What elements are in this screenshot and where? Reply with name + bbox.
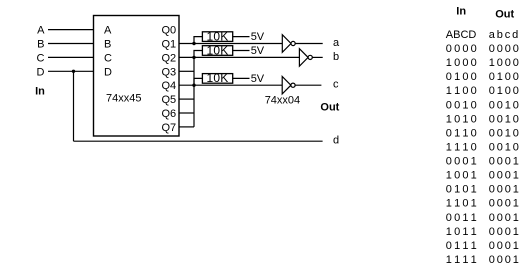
svg-text:0 0 1 1: 0 0 1 1 — [446, 212, 477, 224]
svg-text:1 0 0 0: 1 0 0 0 — [489, 57, 519, 69]
svg-text:0 0 0 1: 0 0 0 1 — [489, 198, 519, 210]
wire R2 to 5V — [233, 50, 250, 52]
wire input A — [48, 29, 94, 31]
svg-text:0 0 0 0: 0 0 0 0 — [446, 43, 477, 55]
svg-text:1 1 0 1: 1 1 0 1 — [446, 198, 477, 210]
wire R1 connector — [194, 37, 202, 44]
svg-text:In: In — [456, 5, 466, 17]
svg-text:0 0 0 1: 0 0 0 1 — [446, 156, 477, 168]
inverter U2b bubble — [308, 55, 312, 59]
svg-text:0 0 1 0: 0 0 1 0 — [489, 141, 519, 153]
svg-text:1 0 0 0: 1 0 0 0 — [446, 57, 477, 69]
wire input D — [48, 70, 94, 72]
resistor R1 10K body — [202, 32, 232, 42]
svg-text:0 0 0 1: 0 0 0 1 — [489, 170, 519, 182]
svg-text:0 1 0 1: 0 1 0 1 — [446, 184, 477, 196]
wire Q5 — [179, 98, 194, 100]
node Q1 junction — [192, 42, 195, 45]
inverter U2c bubble — [291, 83, 295, 87]
svg-text:0 0 0 1: 0 0 0 1 — [489, 184, 519, 196]
wire input C — [48, 56, 94, 58]
truth table In column — [446, 29, 477, 266]
svg-text:B: B — [104, 39, 111, 51]
wire Q7 — [179, 126, 194, 128]
wire Q4 to inverter c input — [179, 84, 282, 86]
svg-text:1 0 1 1: 1 0 1 1 — [446, 226, 477, 238]
resistor R2 10K body — [202, 46, 232, 56]
node Q2 junction — [192, 56, 195, 59]
truth table Out column — [489, 29, 519, 266]
wire R3 connector — [194, 78, 202, 85]
resistor R3 10K body — [202, 74, 232, 84]
svg-text:0 0 0 1: 0 0 0 1 — [489, 156, 519, 168]
svg-text:0 0 0 1: 0 0 0 1 — [489, 240, 519, 252]
svg-text:0 0 1 0: 0 0 1 0 — [489, 99, 519, 111]
svg-text:C: C — [104, 52, 112, 64]
svg-text:1 0 1 0: 1 0 1 0 — [446, 113, 477, 125]
inverter U2a bubble — [291, 41, 295, 45]
svg-text:5V: 5V — [251, 45, 265, 57]
node D junction — [72, 70, 75, 73]
svg-text:0 1 0 0: 0 1 0 0 — [489, 71, 519, 83]
svg-text:74xx45: 74xx45 — [106, 92, 141, 104]
svg-text:0 0 0 1: 0 0 0 1 — [489, 212, 519, 224]
wire D junction down — [73, 71, 75, 141]
svg-text:Q2: Q2 — [162, 52, 177, 64]
svg-text:C: C — [37, 52, 45, 64]
svg-text:Q5: Q5 — [162, 94, 177, 106]
svg-text:1 1 1 0: 1 1 1 0 — [446, 141, 477, 153]
svg-text:0 1 0 0: 0 1 0 0 — [489, 85, 519, 97]
svg-text:Q1: Q1 — [162, 39, 177, 51]
svg-text:0 0 0 1: 0 0 0 1 — [489, 254, 519, 266]
inverter U2a body — [282, 35, 291, 53]
wire R2 connector — [194, 51, 202, 58]
wire Q1 to inverter a input — [179, 43, 282, 45]
svg-text:10K: 10K — [207, 43, 229, 57]
node Q4 junction — [192, 84, 195, 87]
svg-text:0 0 0 1: 0 0 0 1 — [489, 226, 519, 238]
svg-text:Q6: Q6 — [162, 108, 177, 120]
svg-text:1 0 0 1: 1 0 0 1 — [446, 170, 477, 182]
svg-text:0 0 1 0: 0 0 1 0 — [446, 99, 477, 111]
svg-text:10K: 10K — [207, 29, 229, 43]
wire inverter a output — [295, 43, 323, 45]
wire Q3 — [179, 70, 194, 72]
wire inverter b output — [312, 56, 322, 58]
svg-text:0 0 0 0: 0 0 0 0 — [489, 43, 519, 55]
svg-text:In: In — [35, 85, 45, 97]
svg-text:A: A — [37, 25, 45, 37]
wire Q2 to inverter b input — [179, 56, 299, 58]
svg-text:5V: 5V — [251, 73, 265, 85]
svg-text:B: B — [37, 39, 44, 51]
svg-text:0 0 1 0: 0 0 1 0 — [489, 113, 519, 125]
IC U1 74xx45 body — [94, 16, 180, 137]
svg-text:Q7: Q7 — [162, 122, 177, 134]
svg-text:Q4: Q4 — [162, 80, 177, 92]
svg-text:Q0: Q0 — [162, 25, 177, 37]
svg-text:a b c d: a b c d — [489, 29, 518, 41]
svg-text:Q3: Q3 — [162, 66, 177, 78]
svg-text:d: d — [333, 135, 339, 147]
svg-text:b: b — [333, 51, 339, 63]
svg-text:a: a — [333, 37, 340, 49]
svg-text:0 1 1 1: 0 1 1 1 — [446, 240, 477, 252]
inverter U2b body — [299, 49, 308, 67]
svg-text:74xx04: 74xx04 — [265, 94, 300, 106]
svg-text:1 1 1 1: 1 1 1 1 — [446, 254, 477, 266]
wire Q6 — [179, 112, 194, 114]
svg-text:ABCD: ABCD — [446, 29, 477, 41]
wire bus Q2-Q7 vertical — [193, 57, 195, 127]
svg-text:Out: Out — [495, 9, 514, 21]
svg-text:0 1 0 0: 0 1 0 0 — [446, 71, 477, 83]
svg-text:0 1 1 0: 0 1 1 0 — [446, 127, 477, 139]
svg-text:D: D — [37, 66, 45, 78]
wire inverter c output — [295, 84, 321, 86]
inverter U2c body — [282, 76, 291, 94]
svg-text:5V: 5V — [251, 31, 265, 43]
svg-text:10K: 10K — [207, 71, 229, 85]
svg-text:0 0 1 0: 0 0 1 0 — [489, 127, 519, 139]
wire output d — [74, 140, 323, 142]
svg-text:c: c — [333, 79, 339, 91]
wire R1 to 5V — [233, 36, 250, 38]
wire R3 to 5V — [233, 77, 250, 79]
wire input B — [48, 43, 94, 45]
svg-text:A: A — [104, 25, 112, 37]
svg-text:1 1 0 0: 1 1 0 0 — [446, 85, 477, 97]
svg-text:Out: Out — [320, 102, 339, 114]
svg-text:D: D — [104, 66, 112, 78]
